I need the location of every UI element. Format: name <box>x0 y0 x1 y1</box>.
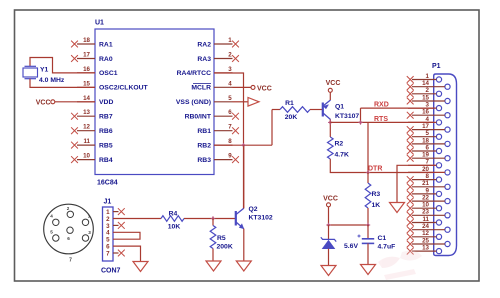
svg-text:Y1: Y1 <box>40 67 49 74</box>
no-connect X on pin 10 <box>71 156 78 163</box>
svg-text:4: 4 <box>228 80 232 87</box>
svg-text:5: 5 <box>426 130 430 137</box>
P1 pin 7 connected wire <box>408 164 436 166</box>
svg-text:10: 10 <box>422 202 429 209</box>
no-connect X on pin 6 <box>232 113 239 120</box>
svg-text:DTR: DTR <box>368 166 382 173</box>
svg-text:6: 6 <box>426 144 430 151</box>
svg-text:6: 6 <box>67 236 70 241</box>
wire J1 pin2 to R4 <box>113 218 161 220</box>
svg-text:15: 15 <box>422 94 429 101</box>
svg-text:RA1: RA1 <box>99 41 113 48</box>
pin 15 (OSC2/CLKOUT) stub <box>77 86 95 88</box>
P1 pin 4 circle <box>436 120 441 125</box>
P1 pin 14 circle <box>445 84 450 89</box>
P1 pin 21 stub <box>412 186 445 188</box>
no-connect X on P1 pin 12 <box>407 233 414 240</box>
no-connect X on P1 pin 11 <box>407 219 414 226</box>
svg-text:15: 15 <box>83 80 90 87</box>
P1 pin 15 circle <box>445 98 450 103</box>
svg-text:4: 4 <box>426 116 430 123</box>
resistor R3 <box>367 173 369 184</box>
P1 pin 18 circle <box>445 141 450 146</box>
P1 pin 12 circle <box>436 234 441 239</box>
resistor R5 <box>212 219 214 226</box>
resistor R1 <box>280 107 310 113</box>
svg-text:8: 8 <box>426 173 430 180</box>
wire P1 pin7 to ground <box>397 165 436 202</box>
P1 pin 16 circle <box>445 113 450 118</box>
svg-text:2: 2 <box>67 206 70 211</box>
P1 pin 22 stub <box>412 200 445 202</box>
no-connect X on P1 pin 6 <box>407 148 414 155</box>
svg-text:13: 13 <box>83 109 90 116</box>
svg-text:1: 1 <box>426 73 430 80</box>
svg-text:RB1: RB1 <box>197 128 211 135</box>
pin 6 (RB0/INT) stub <box>214 115 233 117</box>
P1 pin 23 circle <box>445 213 450 218</box>
P1 pin 8 circle <box>436 177 441 182</box>
svg-text:7: 7 <box>106 250 110 257</box>
power ground arrow at VSS pin5 <box>233 101 249 103</box>
wire DTR line to pin20 of P1 <box>368 172 445 174</box>
P1 pin 13 circle <box>436 249 441 254</box>
P1 pin 19 stub <box>412 157 445 159</box>
wire RA4 pin3 down to RB2 net <box>214 73 244 209</box>
resistor R2 <box>328 137 334 159</box>
wire J1 pins4-5 loop <box>113 232 140 239</box>
wire branch up to RXD <box>360 108 362 122</box>
P1 pin 8 stub <box>412 179 436 181</box>
resistor R4 <box>161 216 184 222</box>
no-connect X on P1 pin 25 <box>407 241 414 248</box>
P1 pin 11 stub <box>412 222 436 224</box>
svg-text:CON7: CON7 <box>101 268 121 275</box>
wire MCLR pin4 to VCC <box>233 86 252 88</box>
pin 11 (RB5) stub <box>77 144 95 146</box>
ground below J1 pin6 <box>133 262 148 272</box>
svg-text:C1: C1 <box>378 235 387 242</box>
pin 5 (VSS (GND)) stub <box>214 101 233 103</box>
svg-text:11: 11 <box>422 216 429 223</box>
IC U1 16C84 body <box>95 29 214 175</box>
no-connect X on P1 pin 10 <box>407 205 414 212</box>
svg-text:18: 18 <box>83 37 90 44</box>
svg-text:KT3102: KT3102 <box>249 215 273 222</box>
svg-text:RB3: RB3 <box>197 157 211 164</box>
pin 13 (RB7) stub <box>77 115 95 117</box>
wire RTS node down to DTR line <box>367 122 369 172</box>
svg-text:RB6: RB6 <box>99 128 113 135</box>
pin 14 (VDD) stub <box>77 101 95 103</box>
wire OSC1 pin16 to crystal top <box>30 58 95 73</box>
svg-text:10K: 10K <box>168 223 181 230</box>
svg-text:RXD: RXD <box>374 102 389 109</box>
P1 pin 6 stub <box>412 150 436 152</box>
P1 pin 3 circle <box>436 106 441 111</box>
no-connect X on P1 pin 2 <box>407 90 414 97</box>
svg-text:RB7: RB7 <box>99 114 113 121</box>
P1 pin 13 stub <box>412 250 436 252</box>
P1 pin 5 circle <box>436 134 441 139</box>
P1 pin 6 circle <box>436 148 441 153</box>
pin 9 (RB3) stub <box>214 159 233 161</box>
no-connect X on J1 pin3 <box>118 222 125 229</box>
svg-text:13: 13 <box>422 245 429 252</box>
junction node right <box>367 224 370 227</box>
svg-text:3: 3 <box>426 102 430 109</box>
junction Q1 collector node <box>329 121 332 124</box>
junction RXD branch <box>359 121 362 124</box>
P1 pin 24 stub <box>412 229 445 231</box>
P1 pin 17 stub <box>412 129 445 131</box>
wire J1 pin6 to ground <box>113 246 141 261</box>
svg-text:VCC: VCC <box>326 80 341 87</box>
pin 12 (RB6) stub <box>77 130 95 132</box>
svg-text:18: 18 <box>422 137 429 144</box>
no-connect X on P1 pin 21 <box>407 183 414 190</box>
svg-text:20: 20 <box>422 166 429 173</box>
svg-text:R3: R3 <box>372 191 381 198</box>
no-connect X on P1 pin 16 <box>407 112 414 119</box>
P1 pin 20 circle <box>445 170 450 175</box>
svg-text:24: 24 <box>422 223 429 230</box>
svg-text:9: 9 <box>426 187 430 194</box>
no-connect X on P1 pin 17 <box>407 126 414 133</box>
pin 7 (RB1) stub <box>214 130 233 132</box>
svg-text:10: 10 <box>83 153 90 160</box>
P1 pin 24 circle <box>445 227 450 232</box>
svg-text:4: 4 <box>50 214 53 219</box>
svg-text:2: 2 <box>426 87 430 94</box>
wire VCC to node <box>328 207 330 225</box>
connector P1 DB25 shell <box>434 74 457 256</box>
svg-text:P1: P1 <box>432 63 441 70</box>
no-connect X on P1 pin 13 <box>407 248 414 255</box>
faint watermark smudge <box>378 251 422 280</box>
no-connect X on pin 7 <box>232 127 239 134</box>
no-connect X on P1 pin 19 <box>407 155 414 162</box>
pin 8 (RB2) stub <box>214 144 233 146</box>
svg-text:MCLR: MCLR <box>191 85 211 92</box>
no-connect X on pin 18 <box>71 41 78 48</box>
ground below R5 <box>206 261 221 271</box>
svg-text:RTS: RTS <box>374 116 388 123</box>
ground below C1 <box>361 265 376 275</box>
svg-text:25: 25 <box>422 237 429 244</box>
wire crystal bottom to OSC2 pin15 <box>30 79 95 88</box>
svg-text:VCC: VCC <box>257 85 272 92</box>
svg-text:8: 8 <box>228 138 232 145</box>
DIN-7 hole pin 2 <box>67 211 73 217</box>
svg-text:RA2: RA2 <box>197 41 211 48</box>
svg-text:RB5: RB5 <box>99 142 113 149</box>
P1 pin 1 circle <box>436 77 441 82</box>
capacitor C1 4.7uF <box>367 225 369 238</box>
pin 18 (RA1) stub <box>77 43 95 45</box>
wire R4 to Q2 base <box>184 218 235 220</box>
ground below Q2 <box>236 261 251 271</box>
svg-text:RA3: RA3 <box>197 56 211 63</box>
junction RB2/RA4/Q2 collector <box>242 144 245 147</box>
svg-text:R1: R1 <box>285 100 294 107</box>
DIN-7 hole pin 5 <box>53 235 59 241</box>
wire zener to ground <box>328 249 330 266</box>
svg-text:RA4/RTCC: RA4/RTCC <box>177 70 211 77</box>
junction R5 top <box>212 217 215 220</box>
wire corner up to R1 <box>271 110 273 146</box>
svg-text:16C84: 16C84 <box>97 180 118 187</box>
no-connect X on P1 pin 8 <box>407 176 414 183</box>
J1 pin1 stub <box>113 211 119 213</box>
wire Q2 emitter to ground <box>243 229 245 261</box>
pin 4 (MCLR) stub <box>214 86 233 88</box>
svg-text:21: 21 <box>422 180 429 187</box>
junction node left <box>327 224 330 227</box>
wire Q1 collector down <box>329 120 331 138</box>
svg-text:Q2: Q2 <box>249 206 258 213</box>
P1 pin 15 stub <box>412 100 445 102</box>
DIN-7 socket face circle <box>44 204 94 254</box>
P1 pin 25 circle <box>445 241 450 246</box>
svg-text:20K: 20K <box>285 114 298 121</box>
svg-text:1K: 1K <box>372 202 381 209</box>
no-connect X on P1 pin 24 <box>407 226 414 233</box>
no-connect X on P1 pin 15 <box>407 98 414 105</box>
svg-text:RB4: RB4 <box>99 157 113 164</box>
svg-text:22: 22 <box>422 195 429 202</box>
P1 pin 11 circle <box>436 220 441 225</box>
ground below pin7 wire <box>390 203 405 213</box>
pin 17 (RA0) stub <box>77 58 95 60</box>
P1 pin 25 stub <box>412 243 445 245</box>
J1 pin3 stub <box>113 224 119 226</box>
P1 pin 9 circle <box>436 191 441 196</box>
svg-text:200K: 200K <box>217 244 233 251</box>
wire R2 bottom to DTR line <box>330 159 368 173</box>
P1 pin 4 connected wire <box>408 121 436 123</box>
P1 pin 9 stub <box>412 193 436 195</box>
svg-text:4.0 MHz: 4.0 MHz <box>39 77 65 84</box>
svg-text:11: 11 <box>83 138 90 145</box>
P1 pin 20 connected wire <box>408 171 445 173</box>
no-connect X on P1 pin 14 <box>407 83 414 90</box>
svg-text:17: 17 <box>422 123 429 130</box>
svg-text:14: 14 <box>422 80 429 87</box>
wire R5 to ground <box>212 249 214 262</box>
svg-text:U1: U1 <box>95 20 104 27</box>
DIN-7 hole pin 4 <box>53 219 59 225</box>
svg-text:RB0/INT: RB0/INT <box>185 114 212 121</box>
wire VCC node horizontal <box>329 224 369 226</box>
P1 pin 5 stub <box>412 136 436 138</box>
P1 pin 17 circle <box>445 127 450 132</box>
svg-text:12: 12 <box>422 230 429 237</box>
J1 pin7 stub <box>113 252 119 254</box>
no-connect X on P1 pin 22 <box>407 198 414 205</box>
svg-text:16: 16 <box>83 66 90 73</box>
wire Q1 collector to RTS pin4 of P1 <box>330 121 436 123</box>
DIN-7 hole pin 6 <box>67 227 73 233</box>
svg-text:9: 9 <box>228 153 232 160</box>
svg-text:17: 17 <box>83 52 90 59</box>
svg-text:VCC: VCC <box>323 195 338 202</box>
P1 pin 1 stub <box>412 79 436 81</box>
no-connect X on pin 11 <box>71 142 78 149</box>
P1 pin 3 connected wire <box>408 107 436 109</box>
svg-text:14: 14 <box>83 95 90 102</box>
connector J1 body <box>103 207 114 261</box>
no-connect X on pin 17 <box>71 55 78 62</box>
svg-text:23: 23 <box>422 209 429 216</box>
svg-text:RA0: RA0 <box>99 56 113 63</box>
svg-text:R4: R4 <box>169 210 178 217</box>
wire VCC to VDD pin14 <box>55 101 95 103</box>
wire Q2 collector up to RB2 net <box>243 145 245 208</box>
P1 pin 21 circle <box>445 184 450 189</box>
P1 pin 10 circle <box>436 206 441 211</box>
svg-text:VCC: VCC <box>36 100 51 107</box>
svg-text:7: 7 <box>228 124 232 131</box>
svg-text:5: 5 <box>50 230 53 235</box>
crystal Y1 <box>23 68 38 77</box>
no-connect X on pin 9 <box>232 156 239 163</box>
svg-text:R5: R5 <box>217 235 226 242</box>
DIN-7 hole pin 3 <box>82 235 88 241</box>
P1 pin 14 stub <box>412 86 445 88</box>
svg-text:7: 7 <box>69 258 72 264</box>
svg-text:VDD: VDD <box>99 99 113 106</box>
P1 pin 2 circle <box>436 91 441 96</box>
svg-text:VSS (GND): VSS (GND) <box>176 99 211 106</box>
no-connect X on P1 pin 23 <box>407 212 414 219</box>
svg-text:4.7K: 4.7K <box>335 152 349 159</box>
no-connect X on pin 13 <box>71 113 78 120</box>
pin 2 (RA3) stub <box>214 58 233 60</box>
wire R3 bottom to VCC node <box>367 208 369 225</box>
pin 3 (RA4/RTCC) stub <box>214 72 233 74</box>
no-connect X on pin 12 <box>71 127 78 134</box>
svg-text:12: 12 <box>83 124 90 131</box>
svg-text:5.6V: 5.6V <box>344 243 358 250</box>
svg-text:19: 19 <box>422 152 429 159</box>
P1 pin 23 stub <box>412 214 445 216</box>
wire VCC to Q1 emitter <box>329 92 331 100</box>
svg-text:R2: R2 <box>335 141 344 148</box>
svg-text:4.7uF: 4.7uF <box>378 244 396 251</box>
zener diode D1 5.6V <box>328 225 330 239</box>
svg-text:5: 5 <box>228 95 232 102</box>
svg-text:KT3107: KT3107 <box>335 113 359 120</box>
pin 16 (OSC1) stub <box>77 72 95 74</box>
no-connect X on P1 pin 9 <box>407 191 414 198</box>
P1 pin 12 stub <box>412 236 436 238</box>
pin 1 (RA2) stub <box>214 43 233 45</box>
no-connect X on pin 2 <box>232 55 239 62</box>
power port VCC at MCLR <box>251 85 255 89</box>
no-connect X on P1 pin 18 <box>407 141 414 148</box>
P1 pin 22 circle <box>445 199 450 204</box>
no-connect X on P1 pin 5 <box>407 133 414 140</box>
P1 pin 7 circle <box>436 163 441 168</box>
svg-text:J1: J1 <box>104 199 112 206</box>
svg-text:OSC2/CLKOUT: OSC2/CLKOUT <box>99 85 149 92</box>
P1 pin 18 stub <box>412 143 445 145</box>
no-connect X on P1 pin 1 <box>407 76 414 83</box>
P1 pin 2 stub <box>412 93 436 95</box>
P1 pin 16 stub <box>412 114 445 116</box>
wire C1 to ground <box>367 243 369 264</box>
svg-text:2: 2 <box>228 52 232 59</box>
wire R1 to Q1 base <box>310 109 322 111</box>
svg-text:OSC1: OSC1 <box>99 70 118 77</box>
svg-text:RB2: RB2 <box>197 142 211 149</box>
wire RB2 pin8 to R1 corner <box>214 144 272 146</box>
transistor Q1 KT3107 (PNP) body <box>322 103 324 117</box>
pin 10 (RB4) stub <box>77 159 95 161</box>
junction DTR/R3 <box>367 171 370 174</box>
P1 pin 10 stub <box>412 207 436 209</box>
svg-text:6: 6 <box>228 109 232 116</box>
no-connect X on pin 1 <box>232 41 239 48</box>
ground below zener <box>321 266 336 276</box>
DIN-7 hole pin 1 <box>82 219 88 225</box>
svg-text:1: 1 <box>228 37 232 44</box>
wire RXD to pin3 of P1 <box>361 107 437 109</box>
svg-text:3: 3 <box>228 66 232 73</box>
transistor Q2 KT3102 (NPN) body <box>235 211 237 226</box>
svg-text:7: 7 <box>426 159 430 166</box>
wire to R1 left <box>272 109 280 111</box>
svg-text:Q1: Q1 <box>335 104 344 111</box>
P1 pin 19 circle <box>445 156 450 161</box>
svg-text:16: 16 <box>422 109 429 116</box>
svg-text:1: 1 <box>88 214 91 219</box>
svg-text:3: 3 <box>88 230 91 235</box>
no-connect X on J1 pin7 <box>118 250 125 257</box>
no-connect X on J1 pin1 <box>118 208 125 215</box>
